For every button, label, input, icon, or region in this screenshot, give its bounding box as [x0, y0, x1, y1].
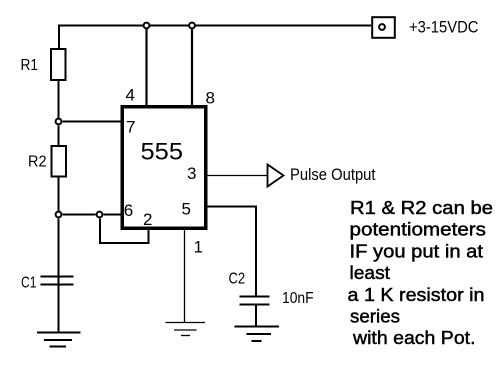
wire C2 to ground: [255, 305, 257, 327]
wire node B down to C1 and ground: [58, 219, 60, 333]
ground for C1: [37, 332, 81, 334]
svg-text:potentiometers: potentiometers: [350, 220, 487, 240]
op-amp U1 555 timer box: [122, 107, 206, 229]
svg-text:6: 6: [124, 201, 133, 220]
svg-text:a 1 K resistor in: a 1 K resistor in: [348, 285, 485, 305]
svg-text:4: 4: [126, 86, 135, 105]
wire rail down to R1: [58, 26, 60, 51]
node pin8 junction on rail: [189, 23, 195, 29]
wire pin 3 output: [207, 175, 267, 177]
capacitor C1: [41, 276, 74, 278]
wire pin 8 to rail: [191, 29, 193, 106]
ground for C2: [235, 326, 280, 328]
capacitor C2: [240, 296, 270, 298]
wire node B to node C: [63, 214, 96, 216]
svg-text:8: 8: [206, 89, 215, 108]
wire node A to R2: [58, 126, 60, 148]
wire pin 4 to rail: [145, 29, 147, 106]
terminal +V: [372, 17, 395, 38]
wire top power rail: [58, 25, 371, 27]
pulse output arrow: [268, 165, 284, 187]
svg-text:R1 & R2 can be: R1 & R2 can be: [350, 198, 493, 218]
svg-text:C1: C1: [21, 275, 37, 292]
node C junction: [97, 212, 103, 218]
svg-text:3: 3: [187, 164, 196, 183]
wire pin 1 to ground: [184, 230, 186, 323]
wire pin 5 to C2: [207, 207, 256, 298]
svg-text:555: 555: [141, 139, 184, 166]
svg-text:Pulse Output: Pulse Output: [290, 165, 376, 184]
resistor R1: [51, 49, 66, 80]
note text block: [348, 198, 494, 348]
svg-text:10nF: 10nF: [282, 290, 314, 307]
svg-text:7: 7: [126, 118, 135, 137]
node pin4 junction on rail: [144, 23, 150, 29]
wire jumper node C to pin 2: [100, 219, 149, 244]
svg-text:5: 5: [182, 200, 191, 219]
wire R1 to node A: [58, 80, 60, 118]
wire R2 to node B: [58, 177, 60, 212]
svg-text:series: series: [350, 307, 400, 327]
wire node C to pin 6: [104, 214, 123, 216]
svg-text:+3-15VDC: +3-15VDC: [409, 18, 479, 37]
svg-text:C2: C2: [229, 271, 246, 288]
wire node A to pin 7: [63, 121, 123, 123]
svg-text:R1: R1: [21, 57, 39, 74]
svg-text:least: least: [350, 263, 391, 283]
svg-text:1: 1: [194, 238, 203, 257]
svg-text:2: 2: [143, 210, 152, 229]
ground for pin 1: [166, 322, 206, 324]
node B junction: [56, 212, 62, 218]
svg-text:R2: R2: [28, 154, 47, 171]
node A junction: [56, 119, 62, 125]
svg-text:with each Pot.: with each Pot.: [352, 328, 476, 348]
resistor R2: [52, 146, 67, 177]
svg-text:IF you put in at: IF you put in at: [350, 241, 484, 261]
